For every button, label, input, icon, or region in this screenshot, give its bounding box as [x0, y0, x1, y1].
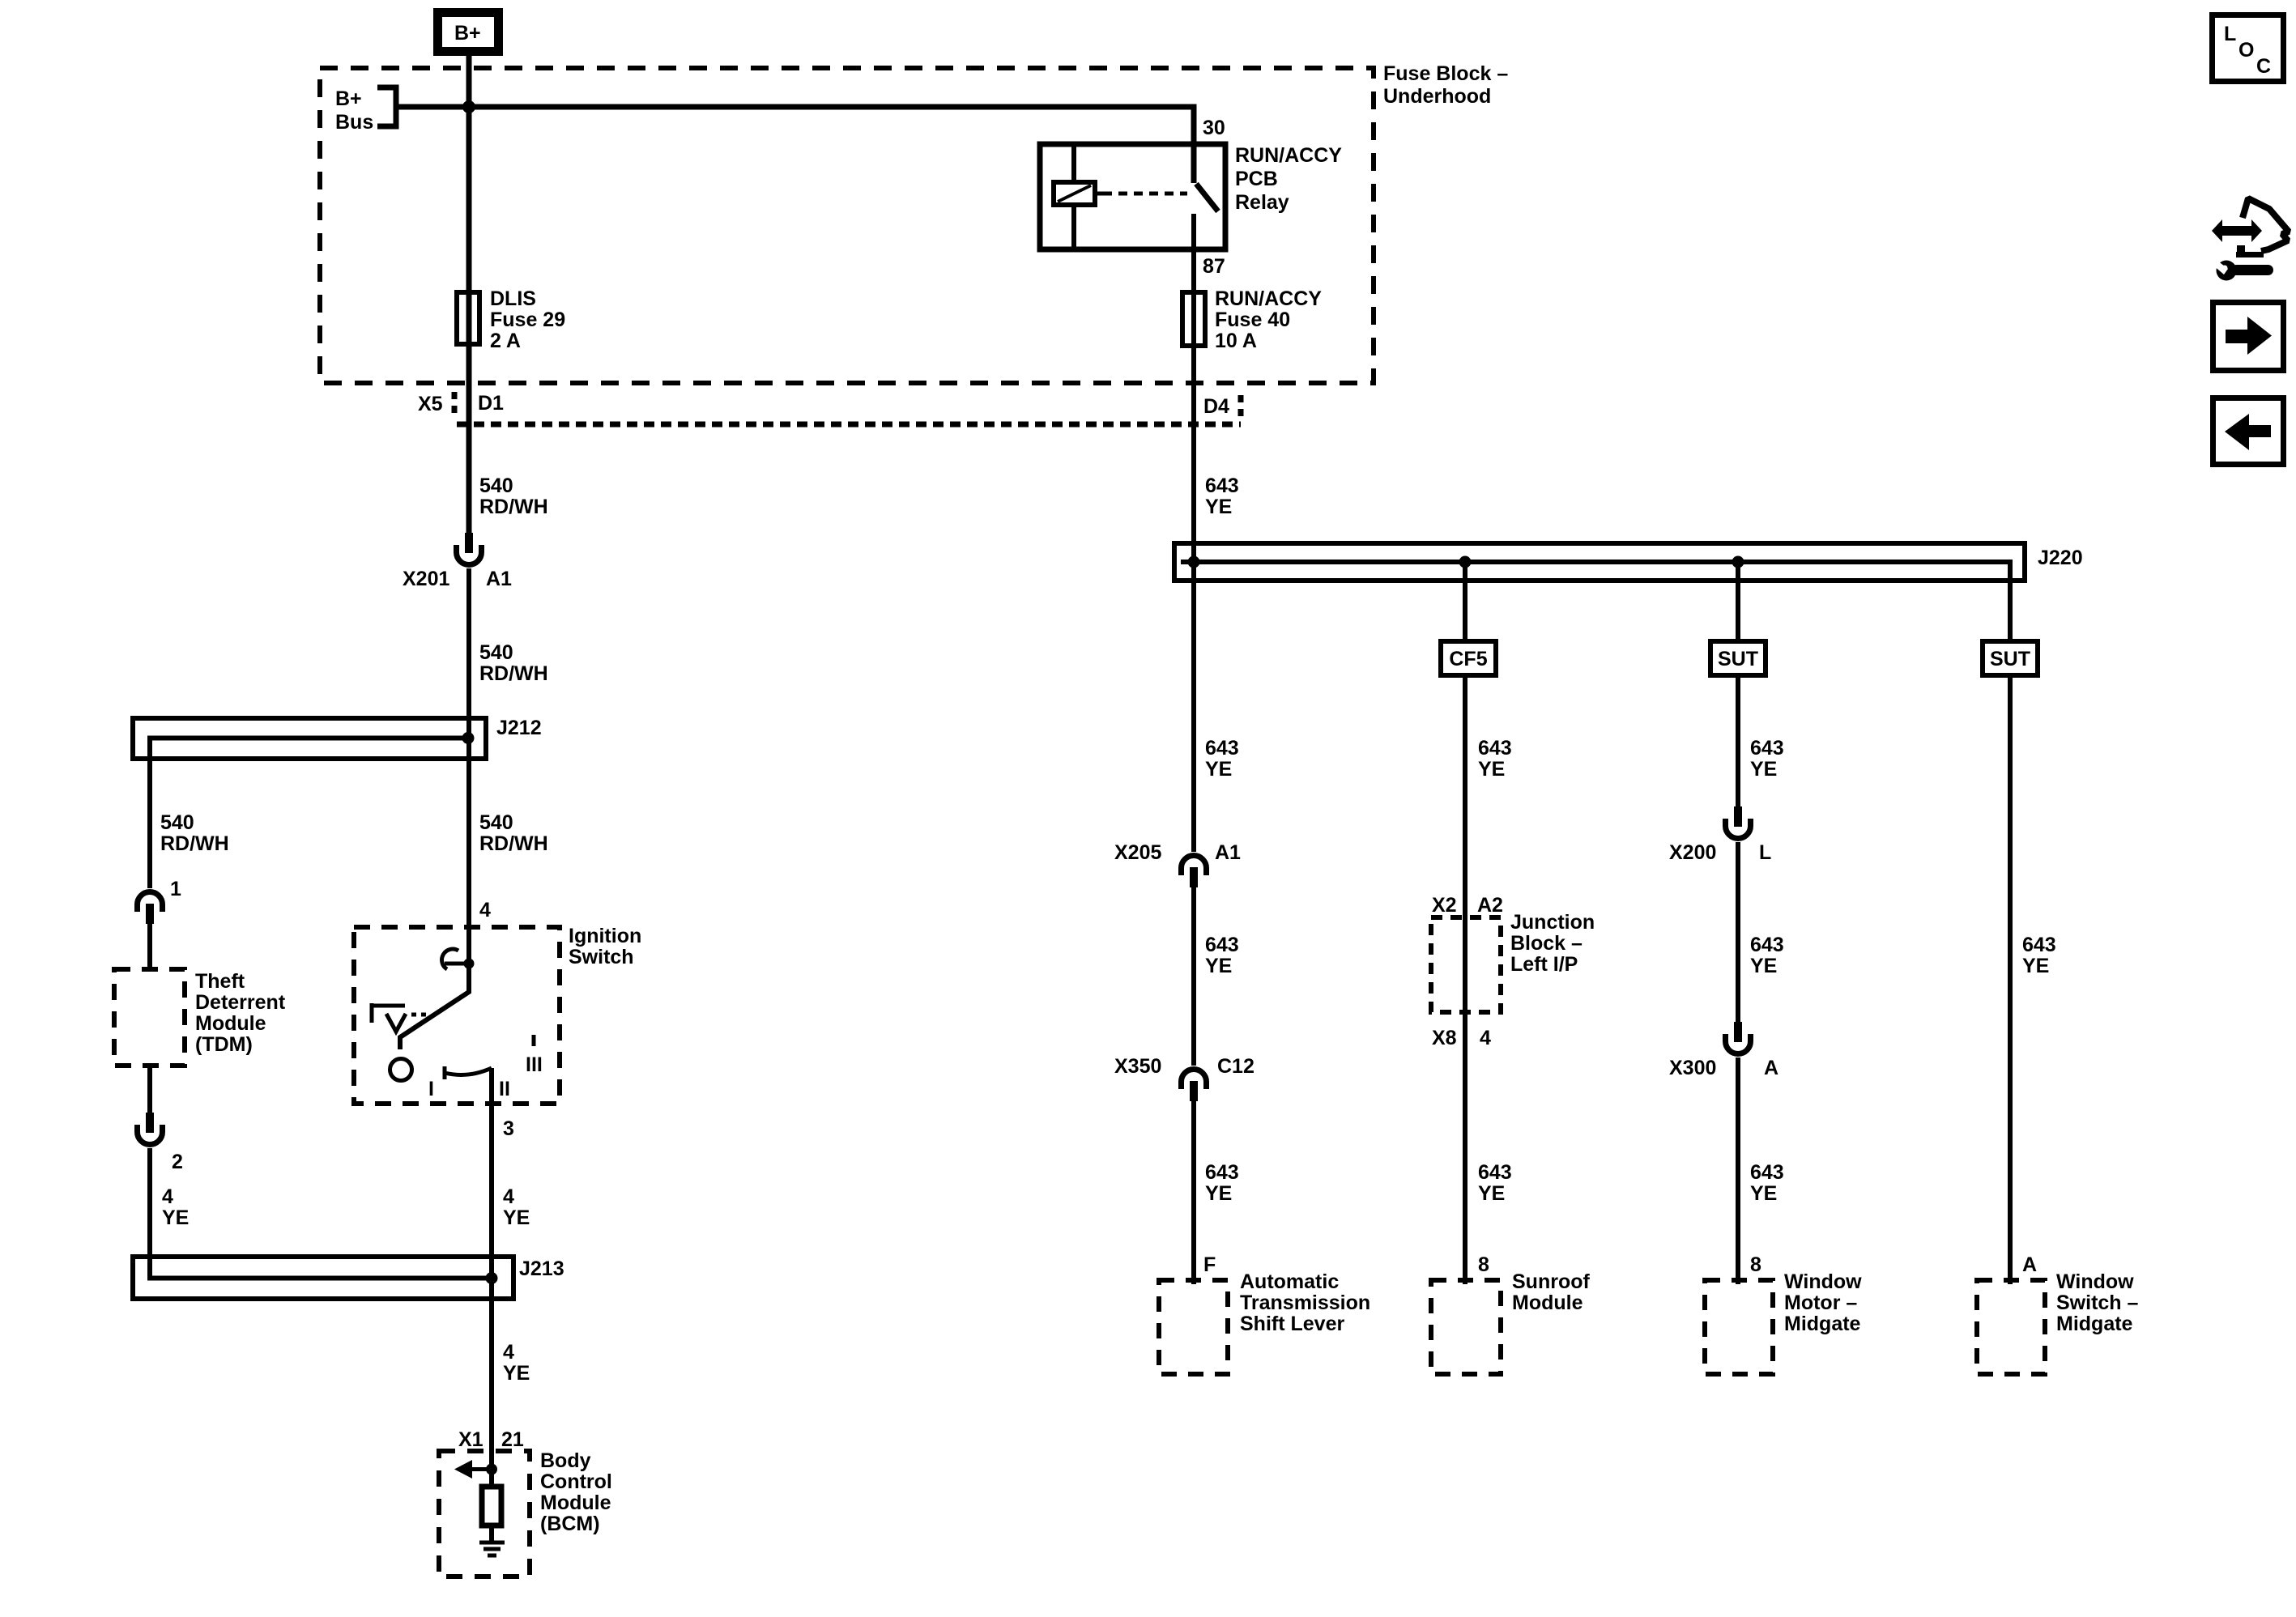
junction block left I/P dashed box	[1431, 911, 1595, 1012]
svg-text:Module: Module	[195, 1012, 266, 1035]
wire label 4 YE (left)	[162, 1185, 189, 1229]
svg-text:B+: B+	[454, 22, 481, 45]
connector X300 pin A	[1669, 1022, 1778, 1079]
svg-text:L: L	[2224, 23, 2236, 45]
svg-text:Left I/P: Left I/P	[1510, 953, 1578, 976]
position tick	[532, 1035, 536, 1046]
svg-text:A: A	[1764, 1057, 1778, 1079]
wire label 643 YE (branch1 upper)	[1205, 737, 1239, 781]
connector 2	[138, 1113, 183, 1173]
svg-text:YE: YE	[1750, 1182, 1777, 1205]
wire label 643 YE (branch2 lower)	[1478, 1161, 1512, 1205]
fuse block underhood dashed box	[320, 68, 1374, 383]
connector 1 (TDM)	[138, 878, 182, 924]
wire label 540 RD/WH (left branch)	[160, 811, 229, 855]
svg-text:CF5: CF5	[1449, 648, 1487, 670]
svg-text:RUN/ACCY: RUN/ACCY	[1215, 287, 1322, 310]
svg-text:643: 643	[2022, 934, 2056, 956]
resistor inside BCM	[482, 1469, 501, 1541]
svg-text:X300: X300	[1669, 1057, 1716, 1079]
svg-text:A1: A1	[486, 568, 512, 590]
wire J220 branch 2 down	[1463, 562, 1467, 639]
svg-text:RUN/ACCY: RUN/ACCY	[1235, 144, 1342, 167]
svg-text:Transmission: Transmission	[1240, 1291, 1370, 1314]
svg-text:Ignition: Ignition	[569, 925, 641, 947]
svg-text:Fuse 29: Fuse 29	[490, 309, 565, 331]
svg-text:540: 540	[160, 811, 194, 834]
signal arrow inside BCM	[454, 1460, 492, 1479]
svg-text:Midgate: Midgate	[2056, 1313, 2133, 1335]
svg-text:RD/WH: RD/WH	[479, 662, 548, 685]
svg-text:Theft: Theft	[195, 970, 245, 993]
svg-text:X8: X8	[1432, 1027, 1457, 1049]
wire label 540 RD/WH (center branch)	[479, 811, 548, 855]
svg-text:643: 643	[1205, 1161, 1239, 1184]
svg-text:Fuse 40: Fuse 40	[1215, 309, 1290, 331]
net label box CF5	[1441, 641, 1496, 675]
svg-text:Switch –: Switch –	[2056, 1291, 2139, 1314]
wire label 4 YE (right of pin 3)	[503, 1185, 530, 1229]
switch S ignition switch dashed box	[354, 925, 641, 1104]
wire X300 to window motor	[1736, 1057, 1740, 1284]
svg-text:X5: X5	[418, 393, 443, 415]
svg-text:YE: YE	[1205, 758, 1232, 781]
wire J220 branch 3 down	[1736, 562, 1740, 639]
svg-text:Control: Control	[540, 1470, 612, 1493]
svg-text:643: 643	[1205, 934, 1239, 956]
wire B+ bus horizontal to relay pin 30	[396, 107, 1194, 183]
svg-text:2: 2	[172, 1151, 183, 1173]
module Window Motor - Midgate dashed box	[1705, 1270, 1862, 1374]
svg-text:Automatic: Automatic	[1240, 1270, 1339, 1293]
ignition switch position II arc	[445, 1066, 492, 1079]
svg-text:2 A: 2 A	[490, 330, 521, 352]
wire TDM to connector 2	[147, 1066, 152, 1113]
ignition switch ACC contact	[372, 1003, 431, 1032]
ground symbol	[479, 1543, 505, 1555]
svg-text:540: 540	[479, 811, 513, 834]
icon arrow previous box	[2213, 398, 2284, 465]
svg-text:Switch: Switch	[569, 946, 634, 968]
wire ignition pin 3 to BCM	[489, 1068, 494, 1469]
svg-text:Junction: Junction	[1510, 911, 1595, 934]
wire X200 to X300	[1736, 842, 1740, 1022]
wire label 643 YE (branch1 lower)	[1205, 1161, 1239, 1205]
svg-text:4: 4	[479, 899, 491, 921]
svg-text:YE: YE	[1478, 1182, 1505, 1205]
svg-text:YE: YE	[1750, 955, 1777, 977]
wire label 4 YE (below J213)	[503, 1341, 530, 1385]
svg-text:30: 30	[1203, 117, 1225, 139]
svg-text:643: 643	[1750, 934, 1784, 956]
wire X201 to ignition switch	[466, 568, 471, 963]
svg-text:SUT: SUT	[1718, 648, 1758, 670]
svg-text:II: II	[499, 1078, 510, 1100]
svg-text:Underhood: Underhood	[1383, 85, 1491, 108]
svg-text:Motor –: Motor –	[1784, 1291, 1857, 1314]
module TDM dashed box	[114, 969, 286, 1066]
svg-text:Deterrent: Deterrent	[195, 991, 286, 1014]
svg-text:YE: YE	[1750, 758, 1777, 781]
wire J220 branch 1 down	[1191, 562, 1196, 852]
svg-text:Window: Window	[2056, 1270, 2134, 1293]
svg-text:Shift Lever: Shift Lever	[1240, 1313, 1344, 1335]
svg-text:YE: YE	[1205, 955, 1232, 977]
svg-text:PCB: PCB	[1235, 168, 1278, 190]
svg-text:DLIS: DLIS	[490, 287, 536, 310]
svg-text:RD/WH: RD/WH	[479, 832, 548, 855]
svg-text:L: L	[1759, 841, 1771, 864]
svg-text:X201: X201	[403, 568, 449, 590]
fuse F29 DLIS	[457, 287, 565, 352]
wire CF5 to sunroof module	[1463, 678, 1467, 1284]
svg-text:SUT: SUT	[1990, 648, 2030, 670]
svg-text:J212: J212	[496, 717, 542, 739]
splice pack J220	[1174, 543, 2083, 640]
svg-text:3: 3	[503, 1117, 514, 1140]
label Fuse Block - Underhood	[1383, 62, 1508, 108]
svg-text:J220: J220	[2038, 547, 2083, 569]
module Window Switch - Midgate dashed box	[1977, 1270, 2139, 1374]
svg-text:(TDM): (TDM)	[195, 1033, 253, 1056]
svg-text:21: 21	[501, 1428, 524, 1451]
connector X350 pin C12	[1114, 1055, 1254, 1101]
splice pack J212	[133, 717, 542, 888]
module Automatic Transmission Shift Lever dashed box	[1159, 1270, 1370, 1374]
wire label 643 YE (branch4)	[2022, 934, 2056, 977]
svg-text:J213: J213	[519, 1257, 564, 1280]
wire connector1 to TDM	[147, 924, 152, 969]
wire B+ feed vertical	[466, 56, 472, 533]
svg-text:Body: Body	[540, 1449, 591, 1472]
svg-text:643: 643	[1478, 737, 1512, 760]
svg-text:X2: X2	[1432, 894, 1457, 917]
svg-text:X350: X350	[1114, 1055, 1161, 1078]
connector boundary X5 dotted line	[454, 392, 1241, 424]
svg-text:643: 643	[1478, 1161, 1512, 1184]
svg-text:10 A: 10 A	[1215, 330, 1257, 352]
wire X205 to X350	[1191, 887, 1196, 1066]
svg-text:X205: X205	[1114, 841, 1161, 864]
svg-text:540: 540	[479, 474, 513, 497]
svg-text:X200: X200	[1669, 841, 1716, 864]
svg-text:RD/WH: RD/WH	[479, 496, 548, 518]
wire label 540 RD/WH (below D1)	[479, 474, 548, 518]
icon arrow next box	[2213, 303, 2284, 371]
svg-text:Fuse Block –: Fuse Block –	[1383, 62, 1508, 85]
svg-text:540: 540	[479, 641, 513, 664]
svg-text:Sunroof: Sunroof	[1512, 1270, 1590, 1293]
svg-text:643: 643	[1205, 737, 1239, 760]
svg-text:C12: C12	[1217, 1055, 1254, 1078]
net label box SUT (window switch)	[1983, 641, 2038, 675]
svg-text:8: 8	[1478, 1253, 1489, 1276]
svg-text:A2: A2	[1477, 894, 1503, 917]
svg-text:1: 1	[170, 878, 181, 900]
connector X205 pin A1	[1114, 841, 1241, 887]
power symbol B+	[438, 13, 499, 52]
svg-text:Module: Module	[540, 1491, 611, 1514]
wire label 643 YE (branch2 upper)	[1478, 737, 1512, 781]
wire X350 to shift lever	[1191, 1101, 1196, 1284]
svg-text:YE: YE	[503, 1362, 530, 1385]
wire label 643 YE (branch1 middle)	[1205, 934, 1239, 977]
svg-text:643: 643	[1750, 1161, 1784, 1184]
splice pack J213	[133, 1257, 564, 1299]
wire connector 2 to J213	[150, 1148, 492, 1279]
ignition switch input contact hook	[442, 949, 475, 969]
svg-text:RD/WH: RD/WH	[160, 832, 229, 855]
junction BCM input	[486, 1464, 497, 1475]
svg-text:4: 4	[1480, 1027, 1491, 1049]
svg-text:Bus: Bus	[335, 111, 373, 134]
wire label 643 YE (branch3 middle)	[1750, 934, 1784, 977]
wire label 643 YE (branch3 upper)	[1750, 737, 1784, 781]
junction B+ bus	[462, 100, 475, 113]
svg-text:Relay: Relay	[1235, 191, 1289, 214]
svg-text:YE: YE	[1478, 758, 1505, 781]
svg-text:YE: YE	[1205, 496, 1232, 518]
svg-text:87: 87	[1203, 255, 1225, 278]
svg-text:D4: D4	[1203, 395, 1229, 418]
svg-text:4: 4	[503, 1341, 514, 1364]
svg-text:O: O	[2238, 39, 2254, 62]
svg-text:D1: D1	[478, 392, 504, 415]
ignition switch rotor circle	[390, 1059, 412, 1081]
svg-text:Module: Module	[1512, 1291, 1583, 1314]
wire relay pin 87 down through fuse 40	[1191, 214, 1196, 562]
svg-text:643: 643	[1205, 474, 1239, 497]
svg-text:643: 643	[1750, 737, 1784, 760]
svg-text:YE: YE	[162, 1206, 189, 1229]
svg-text:Window: Window	[1784, 1270, 1862, 1293]
svg-text:I: I	[428, 1078, 434, 1100]
icon diagnostic (arrow and wrench)	[2208, 198, 2289, 281]
module Sunroof Module dashed box	[1431, 1270, 1590, 1374]
svg-text:X1: X1	[458, 1428, 483, 1451]
connector X201 pin A1	[403, 533, 512, 590]
relay K RUN/ACCY PCB Relay	[1040, 144, 1342, 249]
ignition switch blade	[400, 964, 469, 1049]
connector X200 pin L	[1669, 806, 1771, 864]
wire SUT to window switch	[2008, 678, 2013, 1284]
icon LOC box	[2213, 15, 2284, 82]
node B+ Bus terminal bracket	[335, 87, 396, 134]
svg-text:4: 4	[503, 1185, 514, 1208]
module BCM dashed box	[439, 1449, 612, 1577]
svg-text:Block –: Block –	[1510, 932, 1582, 955]
svg-text:A1: A1	[1215, 841, 1241, 864]
svg-text:(BCM): (BCM)	[540, 1513, 600, 1535]
wire label 643 YE (below D4)	[1205, 474, 1239, 518]
svg-text:A: A	[2022, 1253, 2037, 1276]
svg-text:YE: YE	[1205, 1182, 1232, 1205]
fuse F40 RUN/ACCY	[1182, 287, 1322, 352]
wire label 643 YE (branch3 lower)	[1750, 1161, 1784, 1205]
svg-text:III: III	[526, 1053, 543, 1076]
svg-text:C: C	[2256, 55, 2271, 78]
svg-text:B+: B+	[335, 87, 362, 110]
wire SUT to X200	[1736, 678, 1740, 806]
svg-text:Midgate: Midgate	[1784, 1313, 1861, 1335]
svg-text:F: F	[1203, 1253, 1216, 1276]
svg-text:YE: YE	[2022, 955, 2049, 977]
svg-text:YE: YE	[503, 1206, 530, 1229]
svg-text:4: 4	[162, 1185, 173, 1208]
wire label 540 RD/WH (above J212)	[479, 641, 548, 685]
net label box SUT (window motor)	[1710, 641, 1766, 675]
svg-text:8: 8	[1750, 1253, 1761, 1276]
